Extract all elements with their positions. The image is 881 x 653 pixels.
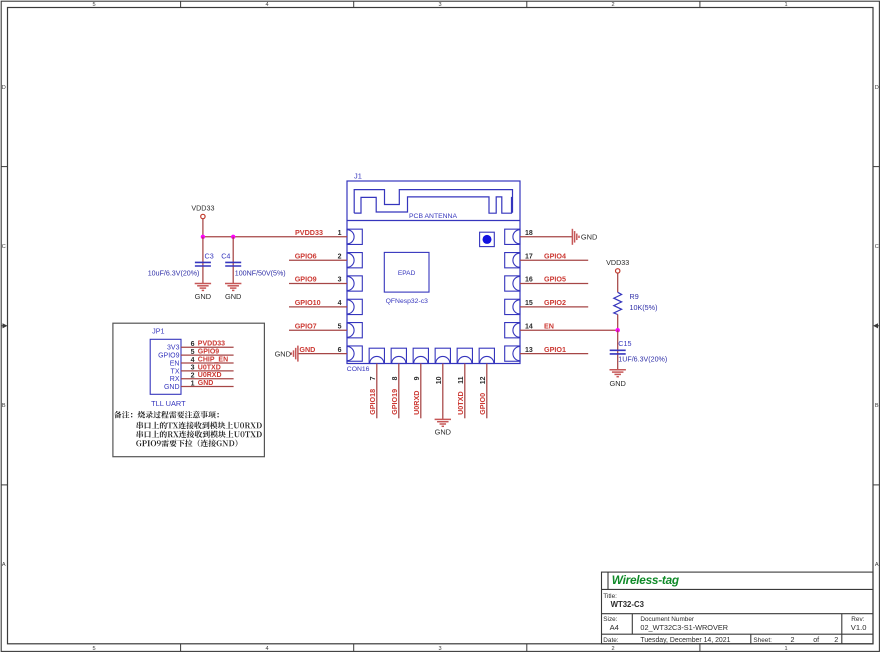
svg-text:CHIP_EN: CHIP_EN bbox=[198, 356, 228, 363]
capacitor C3 bbox=[195, 261, 211, 263]
svg-text:6: 6 bbox=[191, 341, 195, 348]
svg-text:GPIO7: GPIO7 bbox=[295, 321, 317, 330]
wire GPIO6 pin bbox=[289, 259, 347, 261]
svg-text:A: A bbox=[875, 562, 879, 568]
ground C15 bbox=[610, 369, 626, 371]
JP1 pin 6 wire bbox=[181, 346, 234, 348]
wire pin8 bbox=[398, 364, 400, 419]
svg-text:GND: GND bbox=[198, 380, 214, 387]
svg-text:TLL UART: TLL UART bbox=[151, 399, 186, 408]
svg-text:2: 2 bbox=[191, 373, 195, 380]
wire EN pin14 bbox=[520, 329, 618, 331]
connector JP1 body bbox=[150, 339, 181, 394]
svg-text:VDD33: VDD33 bbox=[606, 258, 629, 267]
ground pin10 bbox=[435, 418, 451, 420]
svg-text:5: 5 bbox=[338, 323, 342, 330]
wire C4 drop bbox=[232, 237, 234, 284]
svg-text:PCB ANTENNA: PCB ANTENNA bbox=[409, 213, 457, 220]
pcb antenna meander outer line bbox=[354, 190, 512, 214]
svg-text:EN: EN bbox=[544, 321, 554, 330]
svg-text:EN: EN bbox=[170, 360, 180, 367]
svg-text:4: 4 bbox=[265, 646, 268, 652]
wire VDD rail to pin1 bbox=[203, 236, 347, 238]
svg-text:3: 3 bbox=[438, 2, 441, 8]
pin1 marker dot bbox=[480, 232, 495, 246]
svg-text:GPIO2: GPIO2 bbox=[544, 298, 566, 307]
wire pin18 to gnd bbox=[520, 236, 572, 238]
svg-text:GND: GND bbox=[435, 428, 451, 437]
svg-text:3V3: 3V3 bbox=[167, 345, 180, 352]
antenna section divider bbox=[347, 220, 520, 222]
wire pin10 to gnd bbox=[442, 364, 444, 420]
svg-text:B: B bbox=[2, 403, 6, 409]
power symbol VDD33 left bbox=[201, 214, 205, 218]
svg-text:C: C bbox=[2, 244, 6, 250]
svg-text:GND: GND bbox=[225, 292, 241, 301]
svg-text:J1: J1 bbox=[354, 172, 362, 181]
wire GPIO10 pin bbox=[289, 306, 347, 308]
svg-text:D: D bbox=[875, 85, 879, 91]
JP1 pin 5 wire bbox=[181, 354, 234, 356]
svg-text:GPIO9: GPIO9 bbox=[158, 353, 180, 360]
svg-text:EPAD: EPAD bbox=[398, 270, 416, 277]
svg-text:C15: C15 bbox=[618, 339, 631, 348]
svg-text:1: 1 bbox=[784, 646, 787, 652]
svg-text:4: 4 bbox=[265, 2, 268, 8]
svg-text:U0TXD: U0TXD bbox=[198, 364, 221, 371]
svg-text:8: 8 bbox=[392, 376, 399, 380]
svg-text:GPIO19: GPIO19 bbox=[390, 389, 399, 415]
wire VDD33 drop bbox=[202, 219, 204, 237]
svg-text:Date:: Date: bbox=[603, 637, 618, 644]
svg-text:02_WT32C3-S1-WROVER: 02_WT32C3-S1-WROVER bbox=[640, 623, 728, 632]
svg-text:GPIO9: GPIO9 bbox=[295, 275, 317, 284]
svg-text:5: 5 bbox=[92, 646, 95, 652]
svg-text:10uF/6.3V(20%): 10uF/6.3V(20%) bbox=[148, 269, 200, 277]
svg-text:GPIO6: GPIO6 bbox=[295, 251, 317, 260]
svg-text:R9: R9 bbox=[630, 292, 639, 301]
svg-text:2: 2 bbox=[611, 2, 614, 8]
svg-text:GPIO0: GPIO0 bbox=[478, 393, 487, 415]
JP1 pin 1 wire bbox=[181, 386, 234, 388]
svg-text:18: 18 bbox=[525, 230, 533, 237]
svg-text:1: 1 bbox=[338, 230, 342, 237]
node junction C4 bbox=[231, 235, 235, 239]
power symbol VDD33 right bbox=[616, 269, 620, 273]
svg-text:GND: GND bbox=[299, 345, 315, 354]
svg-text:3: 3 bbox=[191, 365, 195, 372]
wire pin11 bbox=[464, 364, 466, 419]
svg-text:GPIO4: GPIO4 bbox=[544, 251, 566, 260]
svg-text:12: 12 bbox=[480, 376, 487, 384]
svg-text:14: 14 bbox=[525, 323, 533, 330]
svg-text:C4: C4 bbox=[221, 252, 230, 261]
right pads pins 13-18 bbox=[505, 229, 520, 361]
svg-text:C: C bbox=[875, 244, 879, 250]
ground C3 bbox=[195, 283, 211, 285]
chinese note text bbox=[114, 411, 219, 418]
svg-text:WT32-C3: WT32-C3 bbox=[611, 600, 645, 609]
svg-text:16: 16 bbox=[525, 277, 533, 284]
svg-text:GPIO18: GPIO18 bbox=[368, 389, 377, 415]
node junction EN bbox=[616, 328, 620, 332]
svg-text:GPIO10: GPIO10 bbox=[295, 298, 321, 307]
wire R9 to EN node bbox=[617, 315, 619, 331]
svg-text:GND: GND bbox=[581, 233, 597, 242]
wire vdd to R9 bbox=[617, 273, 619, 292]
svg-text:PVDD33: PVDD33 bbox=[295, 228, 323, 237]
module J1 outline bbox=[347, 181, 520, 364]
mid-edge arrows bbox=[1, 325, 5, 327]
svg-text:15: 15 bbox=[525, 300, 533, 307]
svg-text:U0TXD: U0TXD bbox=[456, 391, 465, 415]
svg-text:10: 10 bbox=[436, 376, 443, 384]
bottom pads pins 7-12 bbox=[369, 348, 494, 363]
svg-text:B: B bbox=[875, 403, 879, 409]
wire GPIO9 pin bbox=[289, 283, 347, 285]
capacitor C15 bbox=[610, 349, 626, 351]
svg-text:D: D bbox=[2, 85, 6, 91]
svg-text:GND: GND bbox=[195, 292, 211, 301]
JP1 pin 2 wire bbox=[181, 378, 234, 380]
ground symbol pin6 bbox=[297, 346, 299, 362]
ground symbol pin18 bbox=[571, 229, 573, 245]
svg-text:6: 6 bbox=[338, 347, 342, 354]
svg-text:Sheet:: Sheet: bbox=[753, 637, 772, 644]
svg-text:CON16: CON16 bbox=[347, 366, 370, 373]
svg-text:2: 2 bbox=[791, 635, 795, 644]
wire GPIO5 pin bbox=[520, 283, 588, 285]
svg-text:17: 17 bbox=[525, 253, 533, 260]
svg-text:2: 2 bbox=[338, 253, 342, 260]
svg-text:GPIO5: GPIO5 bbox=[544, 275, 566, 284]
svg-text:GND: GND bbox=[275, 349, 291, 358]
svg-text:7: 7 bbox=[370, 376, 377, 380]
svg-text:GPIO9: GPIO9 bbox=[198, 349, 220, 356]
svg-text:5: 5 bbox=[92, 2, 95, 8]
svg-text:TX: TX bbox=[171, 368, 180, 375]
resistor R9 bbox=[614, 292, 622, 314]
svg-text:RX: RX bbox=[170, 376, 180, 383]
wire GPIO1 pin13 bbox=[520, 353, 588, 355]
left pads pins 1-6 bbox=[347, 229, 362, 361]
svg-text:A4: A4 bbox=[610, 623, 619, 632]
wire C3 to cap bbox=[202, 237, 204, 284]
capacitor C4 bbox=[225, 261, 241, 263]
svg-text:U0RXD: U0RXD bbox=[412, 391, 421, 415]
svg-text:A: A bbox=[2, 562, 6, 568]
svg-text:V1.0: V1.0 bbox=[851, 623, 867, 632]
JP1 pin 4 wire bbox=[181, 362, 234, 364]
wire GPIO4 pin bbox=[520, 259, 588, 261]
svg-text:VDD33: VDD33 bbox=[191, 203, 214, 212]
wire pin12 bbox=[486, 364, 488, 419]
svg-text:4: 4 bbox=[191, 357, 195, 364]
wire GPIO2 pin bbox=[520, 306, 588, 308]
svg-text:PVDD33: PVDD33 bbox=[198, 341, 225, 348]
svg-text:of: of bbox=[813, 635, 819, 644]
svg-text:4: 4 bbox=[338, 300, 342, 307]
wire GPIO7 pin bbox=[289, 329, 347, 331]
wire EN node to C15 bbox=[617, 330, 619, 370]
svg-text:GND: GND bbox=[164, 384, 180, 391]
wire pin6 GND bbox=[298, 353, 347, 355]
svg-text:JP1: JP1 bbox=[152, 327, 164, 336]
node junction C3 bbox=[201, 235, 205, 239]
svg-text:3: 3 bbox=[338, 277, 342, 284]
svg-text:2: 2 bbox=[611, 646, 614, 652]
svg-text:1UF/6.3V(20%): 1UF/6.3V(20%) bbox=[618, 355, 667, 363]
svg-text:Tuesday, December 14, 2021: Tuesday, December 14, 2021 bbox=[640, 637, 730, 644]
svg-text:Wireless-tag: Wireless-tag bbox=[612, 573, 679, 587]
title block frame bbox=[602, 572, 874, 644]
svg-text:QFNesp32-c3: QFNesp32-c3 bbox=[386, 298, 429, 305]
svg-text:GND: GND bbox=[609, 379, 625, 388]
JP1 pin 3 wire bbox=[181, 370, 234, 372]
svg-text:1: 1 bbox=[784, 2, 787, 8]
svg-text:2: 2 bbox=[834, 635, 838, 644]
svg-text:11: 11 bbox=[458, 376, 465, 384]
svg-text:1: 1 bbox=[191, 380, 195, 387]
svg-text:100NF/50V(5%): 100NF/50V(5%) bbox=[235, 269, 286, 277]
wire pin9 bbox=[420, 364, 422, 419]
svg-text:3: 3 bbox=[438, 646, 441, 652]
svg-text:Title:: Title: bbox=[603, 593, 617, 600]
svg-text:C3: C3 bbox=[205, 252, 214, 261]
svg-text:5: 5 bbox=[191, 349, 195, 356]
note box bbox=[113, 323, 265, 457]
ground C4 bbox=[225, 283, 241, 285]
svg-text:GPIO1: GPIO1 bbox=[544, 345, 566, 354]
pcb antenna meander inner line bbox=[354, 197, 511, 213]
svg-text:U0RXD: U0RXD bbox=[198, 372, 222, 379]
svg-text:9: 9 bbox=[414, 376, 421, 380]
svg-text:10K(5%): 10K(5%) bbox=[630, 303, 658, 312]
svg-text:13: 13 bbox=[525, 347, 533, 354]
EPAD box bbox=[384, 252, 429, 292]
wire pin7 bbox=[376, 364, 378, 419]
